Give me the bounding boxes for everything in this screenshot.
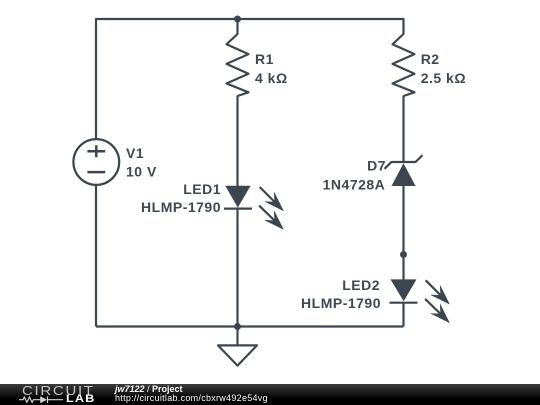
wire: node B to LED2: [402, 255, 404, 280]
svg-text:2.5 kΩ: 2.5 kΩ: [421, 70, 466, 86]
footer project text: [115, 385, 268, 404]
LED2 light arrow 1: [426, 280, 442, 296]
LED1 cathode bar: [224, 208, 252, 210]
CircuitLab logo schematic line (resistor + diode): [17, 394, 77, 405]
wire: R1 to LED1: [236, 96, 238, 187]
V1 minus sign: [87, 171, 105, 174]
CircuitLab logo wordmark LAB: [66, 395, 95, 404]
LED2 triangle: [391, 279, 417, 301]
svg-text:10 V: 10 V: [126, 163, 157, 179]
wire: R2 to D7: [402, 96, 404, 163]
LED2 light arrow 2: [425, 299, 442, 315]
wire: bottom rail: [96, 325, 404, 327]
resistor R2: [393, 34, 415, 96]
svg-text:V1: V1: [126, 145, 144, 161]
svg-text:LED2: LED2: [342, 277, 380, 293]
wire: V1 bottom lead: [95, 185, 97, 326]
ground symbol: [218, 327, 257, 366]
zener D7 cathode bar with hooks: [385, 155, 423, 169]
wire: LED2 to bottom rail: [402, 303, 404, 327]
voltage source V1 circle: [73, 139, 119, 185]
wire: R1 top lead from node A: [236, 19, 238, 35]
logo wire + resistor zigzag: [19, 397, 40, 402]
svg-text:4 kΩ: 4 kΩ: [255, 70, 288, 86]
svg-text:LED1: LED1: [183, 181, 221, 197]
svg-text:1N4728A: 1N4728A: [323, 176, 386, 192]
footer bar: [0, 384, 540, 405]
wire: top rail with left and right drops: [96, 19, 404, 139]
LED1 light arrow 2: [259, 206, 276, 222]
CircuitLab logo wordmark CIRCUIT: [22, 386, 95, 396]
svg-text:HLMP-1790: HLMP-1790: [301, 295, 381, 311]
logo diode triangle: [40, 396, 47, 403]
resistor R1: [227, 34, 249, 96]
svg-text:R1: R1: [255, 51, 274, 67]
node B junction dot: [400, 251, 407, 258]
D7 zener triangle: [392, 163, 416, 186]
LED2 cathode bar: [390, 302, 418, 304]
wire: D7 to node B: [402, 186, 404, 255]
LED1 triangle: [225, 186, 250, 208]
logo diode cathode bar: [48, 396, 64, 403]
V1 plus sign: [87, 145, 105, 157]
svg-text:HLMP-1790: HLMP-1790: [141, 199, 221, 215]
node A junction dot: [234, 16, 241, 23]
LED1 light arrow 1: [260, 187, 276, 203]
svg-text:R2: R2: [421, 51, 440, 67]
node C junction dot (bottom): [234, 323, 241, 330]
svg-text:D7: D7: [367, 157, 386, 173]
wire: LED1 to bottom rail: [236, 209, 238, 327]
